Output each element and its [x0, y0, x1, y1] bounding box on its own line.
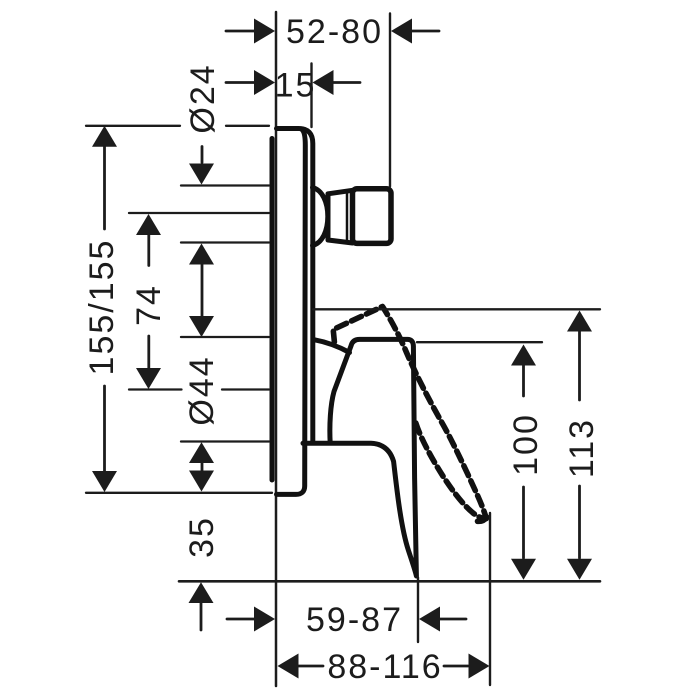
dimension 59-87 left arrow — [227, 618, 255, 621]
wall line — [275, 12, 278, 686]
dimension 88-116 left arrow — [278, 654, 299, 679]
dimension 113 top arrow — [567, 311, 592, 332]
dimension Ø24 bottom arrow — [189, 244, 214, 265]
dimension 88-116 right arrow — [444, 665, 468, 668]
dimension 52-80 right arrow — [411, 30, 439, 33]
svg-text:74: 74 — [130, 284, 168, 326]
dimension 59-87 right arrow — [419, 607, 440, 632]
svg-text:Ø44: Ø44 — [183, 355, 221, 425]
reference line handle hub top — [181, 336, 269, 338]
handle neck top curve — [314, 340, 350, 353]
extension line 52-80 end of cap — [389, 14, 391, 187]
reference line plate bottom — [86, 492, 272, 494]
dashed lever pulled position outer edge — [333, 307, 486, 519]
svg-text:113: 113 — [563, 418, 601, 478]
reference line handle hub bottom — [181, 440, 269, 442]
baseline lever tip level — [179, 580, 600, 583]
escutcheon plate face edge and bottom — [277, 130, 306, 495]
dimension 74 bottom arrow — [147, 336, 150, 368]
dimension 74 top arrow — [136, 214, 161, 235]
reference line handle top 100 — [417, 341, 542, 343]
reference line cartridge top — [181, 184, 269, 186]
handle body and lever outline — [303, 339, 416, 576]
dashed lever pulled position inner edge — [416, 423, 486, 519]
cartridge end cap — [353, 189, 392, 244]
dimension Ø44 bottom arrow — [189, 442, 214, 463]
cartridge collar — [328, 190, 353, 243]
svg-text:35: 35 — [183, 516, 221, 558]
reference line 74 bottom — [129, 388, 269, 390]
dimension 100 bottom arrow — [522, 487, 525, 558]
dimension Ø44 top arrow — [189, 316, 214, 337]
svg-text:15: 15 — [275, 67, 317, 105]
svg-text:155/155: 155/155 — [83, 239, 121, 376]
dimension 113 bottom arrow — [578, 486, 581, 558]
dimension 155/155 bottom arrow — [103, 386, 106, 472]
extension line dashed lever tip bottom — [489, 513, 491, 685]
reference line 74 top — [129, 212, 269, 214]
dimension 15 left arrow — [226, 81, 255, 84]
reference line plate top — [86, 125, 269, 127]
svg-text:59-87: 59-87 — [306, 601, 403, 639]
svg-text:52-80: 52-80 — [286, 13, 383, 51]
dimension Ø24 top arrow — [201, 147, 204, 163]
dimension 35 bottom arrow — [189, 582, 214, 603]
collar inner line — [346, 192, 349, 242]
dimension 155/155 top arrow — [92, 126, 117, 147]
dimension 100 top arrow — [511, 345, 536, 366]
dimension 15 right arrow — [333, 81, 360, 84]
extension line 15 front of plate — [310, 64, 312, 128]
extension line lever tip bottom — [417, 578, 419, 643]
svg-text:88-116: 88-116 — [327, 648, 442, 686]
cartridge dome — [313, 188, 328, 246]
svg-text:100: 100 — [507, 413, 545, 476]
escutcheon wall flange — [270, 139, 275, 481]
dashed lever tip hook — [478, 517, 487, 521]
reference line dashed lever top 113 — [313, 308, 600, 310]
escutcheon plate outer silhouette — [277, 129, 313, 442]
reference line cartridge bottom — [181, 241, 269, 243]
svg-text:Ø24: Ø24 — [184, 63, 222, 133]
dimension 52-80 left arrow — [226, 30, 255, 33]
